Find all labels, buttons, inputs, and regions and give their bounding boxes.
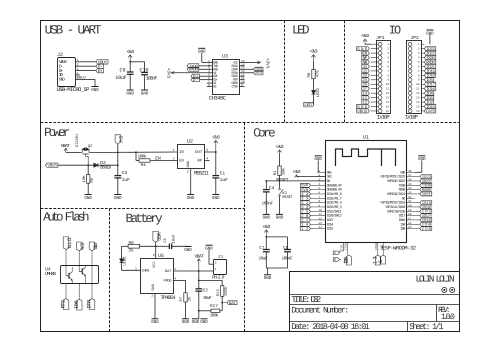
ground J1 pin2 [205,245,213,264]
svg-text:GND: GND [212,196,220,201]
svg-text:100nF: 100nF [262,202,274,207]
net tag BAT divider [222,301,237,307]
svg-text:VBUS: VBUS [47,164,57,169]
svg-text:RTS: RTS [61,300,67,309]
logo icons [442,287,455,292]
net tag RXD0 at U1 right [415,188,431,193]
svg-text:VBAT: VBAT [61,143,70,149]
svg-text:38: 38 [408,170,412,173]
svg-text:SHLD: SHLD [77,76,87,81]
wire U2 OUT to +3V3 node [205,151,217,153]
net tag GND at JP1 pin 2 [357,47,370,52]
svg-text:13: 13 [416,97,420,100]
svg-text:BP: BP [197,159,202,164]
svg-text:11: 11 [318,213,322,216]
svg-text:12: 12 [301,227,309,232]
svg-text:+3V3: +3V3 [262,224,270,230]
wire J2 pin3 to D+ tag [80,70,96,72]
ground C2 pair [192,310,209,325]
svg-text:7: 7 [318,196,320,199]
svg-text:IO22: IO22 [422,179,431,184]
svg-text:0: 0 [334,258,336,263]
svg-text:D+: D+ [98,69,103,74]
svg-text:G: G [378,260,384,263]
power flag VBAT battery [194,253,204,271]
svg-text:6: 6 [318,191,320,194]
svg-text:IO5: IO5 [422,210,432,215]
wire U4 to bottom tags [66,284,92,300]
svg-text:4: 4 [418,56,420,59]
net tag MTDO vertical bottom [343,255,351,265]
svg-text:3: 3 [387,52,389,55]
title block frame [290,272,460,332]
svg-text:14: 14 [386,101,390,104]
svg-text:29: 29 [408,209,412,212]
svg-text:10: 10 [318,209,322,212]
svg-text:1uF: 1uF [122,177,131,183]
svg-text:RXD0: RXD0 [422,188,431,193]
svg-text:IO27: IO27 [327,218,334,223]
sheet text [409,322,444,332]
svg-text:GND: GND [264,276,272,281]
svg-text:IO34/MI_6: IO34/MI_6 [327,192,342,197]
svg-text:Auto Flash: Auto Flash [43,211,89,225]
svg-text:12: 12 [318,217,322,220]
net tag 12 at JP1 pin 13 [362,96,370,101]
net tag RTS bottom vertical [61,299,69,310]
svg-text:IO12: IO12 [327,227,334,232]
wire U2 GND pin3 [190,169,192,194]
svg-text:+3V3: +3V3 [361,33,369,39]
svg-text:2: 2 [215,260,217,264]
svg-text:2: 2 [173,156,175,160]
svg-text:4: 4 [206,156,208,160]
svg-text:13: 13 [318,222,322,225]
net tag 27 at JP1 pin 11 [362,87,370,92]
svg-text:LED: LED [304,103,312,108]
net tag RXD0 at JP2 pin 5 [424,60,436,65]
svg-text:Core: Core [253,127,276,141]
svg-text:R4: R4 [141,163,147,168]
svg-text:TXD0: TXD0 [399,183,406,188]
svg-text:J1: J1 [218,255,224,260]
svg-text:PH-2.0: PH-2.0 [212,275,225,281]
svg-text:10K: 10K [282,168,287,176]
connector J1 PH-2.0 [212,255,227,281]
svg-text:2: 2 [387,48,389,51]
wire U3 RXD to tag [199,68,207,70]
svg-text:EN: EN [179,159,184,164]
svg-text:RTS: RTS [91,243,97,250]
capacitor C1 1uF [212,152,228,194]
svg-text:9: 9 [387,79,389,82]
svg-text:EN: EN [79,243,85,250]
net tag VBUS [96,60,108,66]
section divider: USB-UART | LED [284,21,286,123]
resistor R5 pulldown [82,165,95,194]
svg-text:+3V3: +3V3 [265,58,270,69]
svg-text:BAT: BAT [165,269,172,274]
svg-text:8: 8 [418,74,420,77]
net tag EN at JP1 pin 3 [362,51,370,56]
svg-text:+3V3: +3V3 [292,169,300,175]
svg-text:1: 1 [135,266,137,270]
svg-text:VBAT: VBAT [194,253,204,259]
net tag SVP at JP1 pin 4 [362,56,370,61]
svg-text:470: 470 [316,70,321,78]
resistor R13 100k upper divider [216,286,229,311]
net tag SVN at U1 left [301,188,318,193]
LED D2 LED2 [312,87,321,97]
wire U4 internal [66,266,92,283]
svg-text:GND: GND [187,196,195,201]
section divider: Auto Flash | Battery [109,209,111,332]
net tag DTR [254,67,264,73]
wire VBUS to diode and gate node [58,164,94,166]
svg-text:34: 34 [408,187,412,190]
svg-text:GND: GND [263,216,271,221]
svg-text:14: 14 [301,223,309,228]
net tag IO0 at JP2 pin 13 [424,96,434,101]
svg-text:IO4: IO4 [422,223,431,228]
wire caps to ground [266,268,287,275]
svg-text:36: 36 [408,178,412,181]
net tag GND at JP2 pin 16 [424,109,436,114]
ground C1 [212,195,220,201]
svg-text:U3: U3 [222,54,228,60]
wire U3 DTR to tag [245,68,254,70]
svg-text:Power: Power [44,126,70,140]
resistor R4 100k EN pull-up [136,152,150,168]
svg-text:35: 35 [408,183,412,186]
net tag 33 at JP1 pin 8 [362,73,370,78]
net tag LED [304,102,314,108]
svg-text:1: 1 [215,267,217,271]
svg-text:10: 10 [416,83,420,86]
svg-text:EN: EN [327,179,330,184]
svg-text:IO16: IO16 [422,218,432,223]
svg-text:IO17: IO17 [422,214,431,219]
svg-text:JP2: JP2 [411,35,420,41]
capacitor C3 1uF [114,170,130,194]
wire U3 UD- to tag [200,79,207,81]
document number text [291,306,349,316]
diode D2 B5819 [94,160,112,170]
svg-text:IO14: IO14 [327,222,334,227]
svg-text:U1: U1 [363,135,369,141]
svg-text:37: 37 [408,174,412,177]
pin header JP1 1x16P [371,35,391,120]
svg-text:7: 7 [387,70,389,73]
net tag D+ [96,68,104,74]
net tag IO4 at JP2 pin 12 [424,91,434,96]
svg-text:PROG: PROG [164,278,172,283]
net tag IO23 at JP2 pin 2 [424,47,436,52]
section divider: Power | Auto Flash + Battery [41,208,245,210]
svg-text:1.0.0: 1.0.0 [441,313,455,322]
svg-text:14: 14 [416,101,420,104]
svg-text:9: 9 [241,84,243,87]
transistor Q inside U4 left [66,267,72,284]
svg-text:12: 12 [386,92,390,95]
svg-text:GND: GND [84,196,92,201]
svg-text:25: 25 [408,226,412,229]
net tag 33 at U1 left [301,205,318,210]
svg-text:IO25/DAC1: IO25/DAC1 [327,209,342,214]
svg-text:VSPID/MTDI/IO23: VSPID/MTDI/IO23 [380,175,405,180]
svg-text:10uF: 10uF [203,296,212,301]
svg-text:+3V3: +3V3 [309,49,317,55]
svg-text:15: 15 [416,105,420,108]
svg-text:R6: R6 [129,241,135,246]
resistor R10 10K [273,154,286,181]
ground U3 pin1 [198,48,207,62]
wire +3V3 to R8 [313,62,315,70]
title text [291,295,321,305]
svg-text:TXD0: TXD0 [422,184,432,189]
svg-text:+3V3: +3V3 [126,49,134,55]
power +3V3 U3 V3 pin [166,68,207,79]
net tag 27 at U1 left [301,218,318,223]
svg-text:SVN: SVN [301,188,309,193]
svg-text:31: 31 [408,200,412,203]
svg-text:IO35/MI_7: IO35/MI_7 [327,196,342,201]
svg-text:DTR: DTR [87,299,93,308]
resistor R7 2k [179,293,192,319]
svg-text:IO33/MI_5: IO33/MI_5 [327,205,342,210]
wire U5 VCC to C5 and GND [156,245,170,247]
svg-text:14: 14 [318,226,322,229]
svg-text:J2: J2 [57,52,63,58]
svg-text:C1: C1 [220,170,226,176]
capacitor C10 100nF [140,68,158,90]
svg-text:GND: GND [200,320,208,325]
svg-text:1: 1 [387,43,389,46]
svg-text:100k: 100k [138,153,147,159]
label SHLD on J2 pin4 [77,76,87,81]
logo text LOLIN LOLIN [416,273,455,284]
svg-text:VSPICLK/IO18: VSPICLK/IO18 [385,205,405,210]
svg-text:27: 27 [408,217,412,220]
net tag 12 at U1 left [301,227,318,232]
svg-text:ME6211: ME6211 [194,171,209,177]
svg-text:IO0: IO0 [400,227,405,232]
net tag GND vertical bottom [378,255,386,264]
svg-text:GND: GND [380,245,383,250]
svg-text:8: 8 [153,253,155,257]
svg-text:IO17: IO17 [399,214,406,219]
svg-text:C5: C5 [163,237,168,242]
svg-text:R8: R8 [307,72,312,77]
svg-text:2: 2 [151,293,153,297]
svg-text:NC: NC [402,196,405,201]
ground C9 [126,90,134,96]
svg-text:100k: 100k [224,286,229,296]
svg-text:Date: 2018-04-08 16:01: Date: 2018-04-08 16:01 [291,322,370,332]
ground C5 [184,247,192,253]
wire U5 BAT to J1 [173,270,214,272]
svg-text:1uF: 1uF [220,177,229,183]
net tag IO21 at U1 right [415,192,432,197]
svg-text:8: 8 [318,200,320,203]
net tag IO22 at U1 right [415,179,431,184]
wire U3 RTS to tag [245,72,254,74]
svg-text:13: 13 [386,97,390,100]
transistor array U4 UMH3N body [45,266,99,284]
svg-text:CH340C: CH340C [209,96,226,102]
svg-text:+3V3: +3V3 [212,134,220,140]
svg-text:33: 33 [301,205,309,210]
svg-text:5: 5 [206,148,208,152]
svg-text:32: 32 [301,201,309,206]
svg-text:C9: C9 [120,68,126,74]
svg-text:1: 1 [418,43,420,46]
wire J2 pin5 GND [80,79,95,86]
net tag 14 at JP1 pin 12 [362,91,370,96]
wire D2 to C3 node [98,152,118,175]
svg-text:GND: GND [426,109,435,114]
resistor R6 2k [128,241,156,254]
svg-text:CHRG: CHRG [142,268,150,273]
svg-text:IN: IN [179,150,184,155]
svg-text:100k: 100k [210,312,219,318]
svg-text:CTS#: CTS# [232,85,238,90]
ground J2 [91,87,99,93]
svg-text:IO26/DAC2: IO26/DAC2 [327,214,342,219]
wire R8 to LED2 [313,79,315,91]
net tag IO13 vertical bottom [372,255,380,265]
svg-text:R1: R1 [273,170,278,175]
net tag IO22 at JP2 pin 3 [424,51,436,56]
ground U5 [151,319,159,325]
svg-text:4: 4 [387,56,389,59]
svg-text:33: 33 [408,191,412,194]
svg-text:4: 4 [318,183,320,186]
net tag SVN at JP1 pin 5 [362,60,370,65]
net tag IO2 bottom [333,251,339,256]
net tag 34 at JP1 pin 6 [362,64,370,69]
power +3V3 U3 VCC [245,58,270,69]
svg-text:1x16P: 1x16P [405,114,419,121]
regulator U2 ME6211 body [173,139,210,177]
net tag 25 at JP1 pin 9 [362,78,370,83]
svg-text:5: 5 [318,187,320,190]
ground R7 [182,319,190,325]
svg-text:+3V3: +3V3 [275,144,283,150]
power +3V3 U2 output [212,134,220,152]
net tag 14 at U1 left [301,222,318,227]
net tag IO16 at U1 right [415,218,432,223]
svg-text:12: 12 [416,92,420,95]
net tag IO4 at U1 right [415,222,431,227]
ground JP2 pin1 [424,30,434,44]
svg-text:IO0: IO0 [422,227,432,232]
net tag 26 at JP1 pin 10 [362,82,370,87]
svg-text:IO21: IO21 [422,192,432,197]
svg-text:VCC: VCC [152,262,157,268]
svg-text:GND: GND [114,196,122,201]
svg-text:IO2: IO2 [341,245,344,250]
svg-text:Battery: Battery [126,212,164,226]
module U1 ESP32 body [326,135,417,252]
svg-text:O: O [394,23,401,37]
svg-text:RXD0: RXD0 [399,188,406,193]
svg-text:LED1: LED1 [122,256,127,266]
wire +3V3 to C7 C8 [266,237,287,249]
svg-text:GND: GND [400,170,405,175]
svg-text:JP1: JP1 [376,35,385,41]
net tag IO15 at JP2 pin 15 [424,104,436,109]
U1 bottom pins right group [375,243,383,256]
svg-text:5V: 5V [117,136,123,144]
svg-text:2k: 2k [129,248,135,254]
svg-text:BAT: BAT [229,301,237,306]
svg-text:R17: R17 [210,304,218,309]
svg-text:Q2: Q2 [88,144,93,149]
svg-text:DTR: DTR [65,238,71,249]
transistor Q inside U4 right [79,266,85,284]
svg-text:VBUS: VBUS [357,109,367,114]
svg-text:2k: 2k [187,296,192,301]
wire LED2 to tag [313,95,315,105]
svg-text:U5: U5 [158,253,164,259]
wire RESET to U1 EN [265,180,325,182]
wire EN to U2 pin2 [150,155,177,161]
svg-text:28: 28 [408,213,412,216]
svg-text:SENSOR_VN: SENSOR_VN [327,188,342,193]
svg-text:16: 16 [386,110,390,113]
svg-text:GND: GND [91,88,99,93]
svg-text:5: 5 [418,61,420,64]
wire tags to U4 [66,250,92,266]
ground C3 [114,195,122,201]
wire BAT node to divider and C2 [198,271,222,289]
svg-text:16: 16 [416,110,420,113]
svg-text:10K: 10K [82,175,87,183]
svg-text:IO23: IO23 [422,175,432,180]
svg-text:5: 5 [175,267,177,271]
capacitor C8 100nF [282,246,293,268]
net tag IO5 at U1 right [415,209,432,214]
net tag VBUS input [45,163,58,169]
svg-text:SENSOR_VP: SENSOR_VP [327,183,342,188]
svg-text:1: 1 [173,148,175,152]
net tag 26 at U1 left [301,214,318,219]
ground R5 [84,195,92,201]
svg-text:34: 34 [301,192,309,197]
label RESET net [276,177,288,183]
net tag IO0 at U1 right [415,227,432,232]
svg-text:GND: GND [327,170,332,175]
svg-text:RXD0: RXD0 [189,68,198,73]
net tag TXD0 at U1 right [415,183,432,188]
switch K1 RESET [279,181,294,214]
power +3V3 U1 3V3 pin [292,169,325,178]
svg-text:+3V3: +3V3 [166,68,171,79]
ground U2 [187,195,195,201]
svg-text:R5: R5 [90,177,95,182]
net tag 34 at U1 left [301,192,318,197]
svg-text:2: 2 [334,251,336,256]
svg-text:USB - UART: USB - UART [45,23,102,37]
net tag DTR bottom vertical [87,299,95,310]
net tag TXD0 at JP2 pin 4 [424,56,436,61]
svg-text:C4: C4 [269,186,275,191]
date text [291,322,370,332]
power +3V3 R10 pullup [275,144,283,154]
capacitor C5 10uF [163,234,188,250]
wire VBAT to Q2 source [66,152,80,154]
